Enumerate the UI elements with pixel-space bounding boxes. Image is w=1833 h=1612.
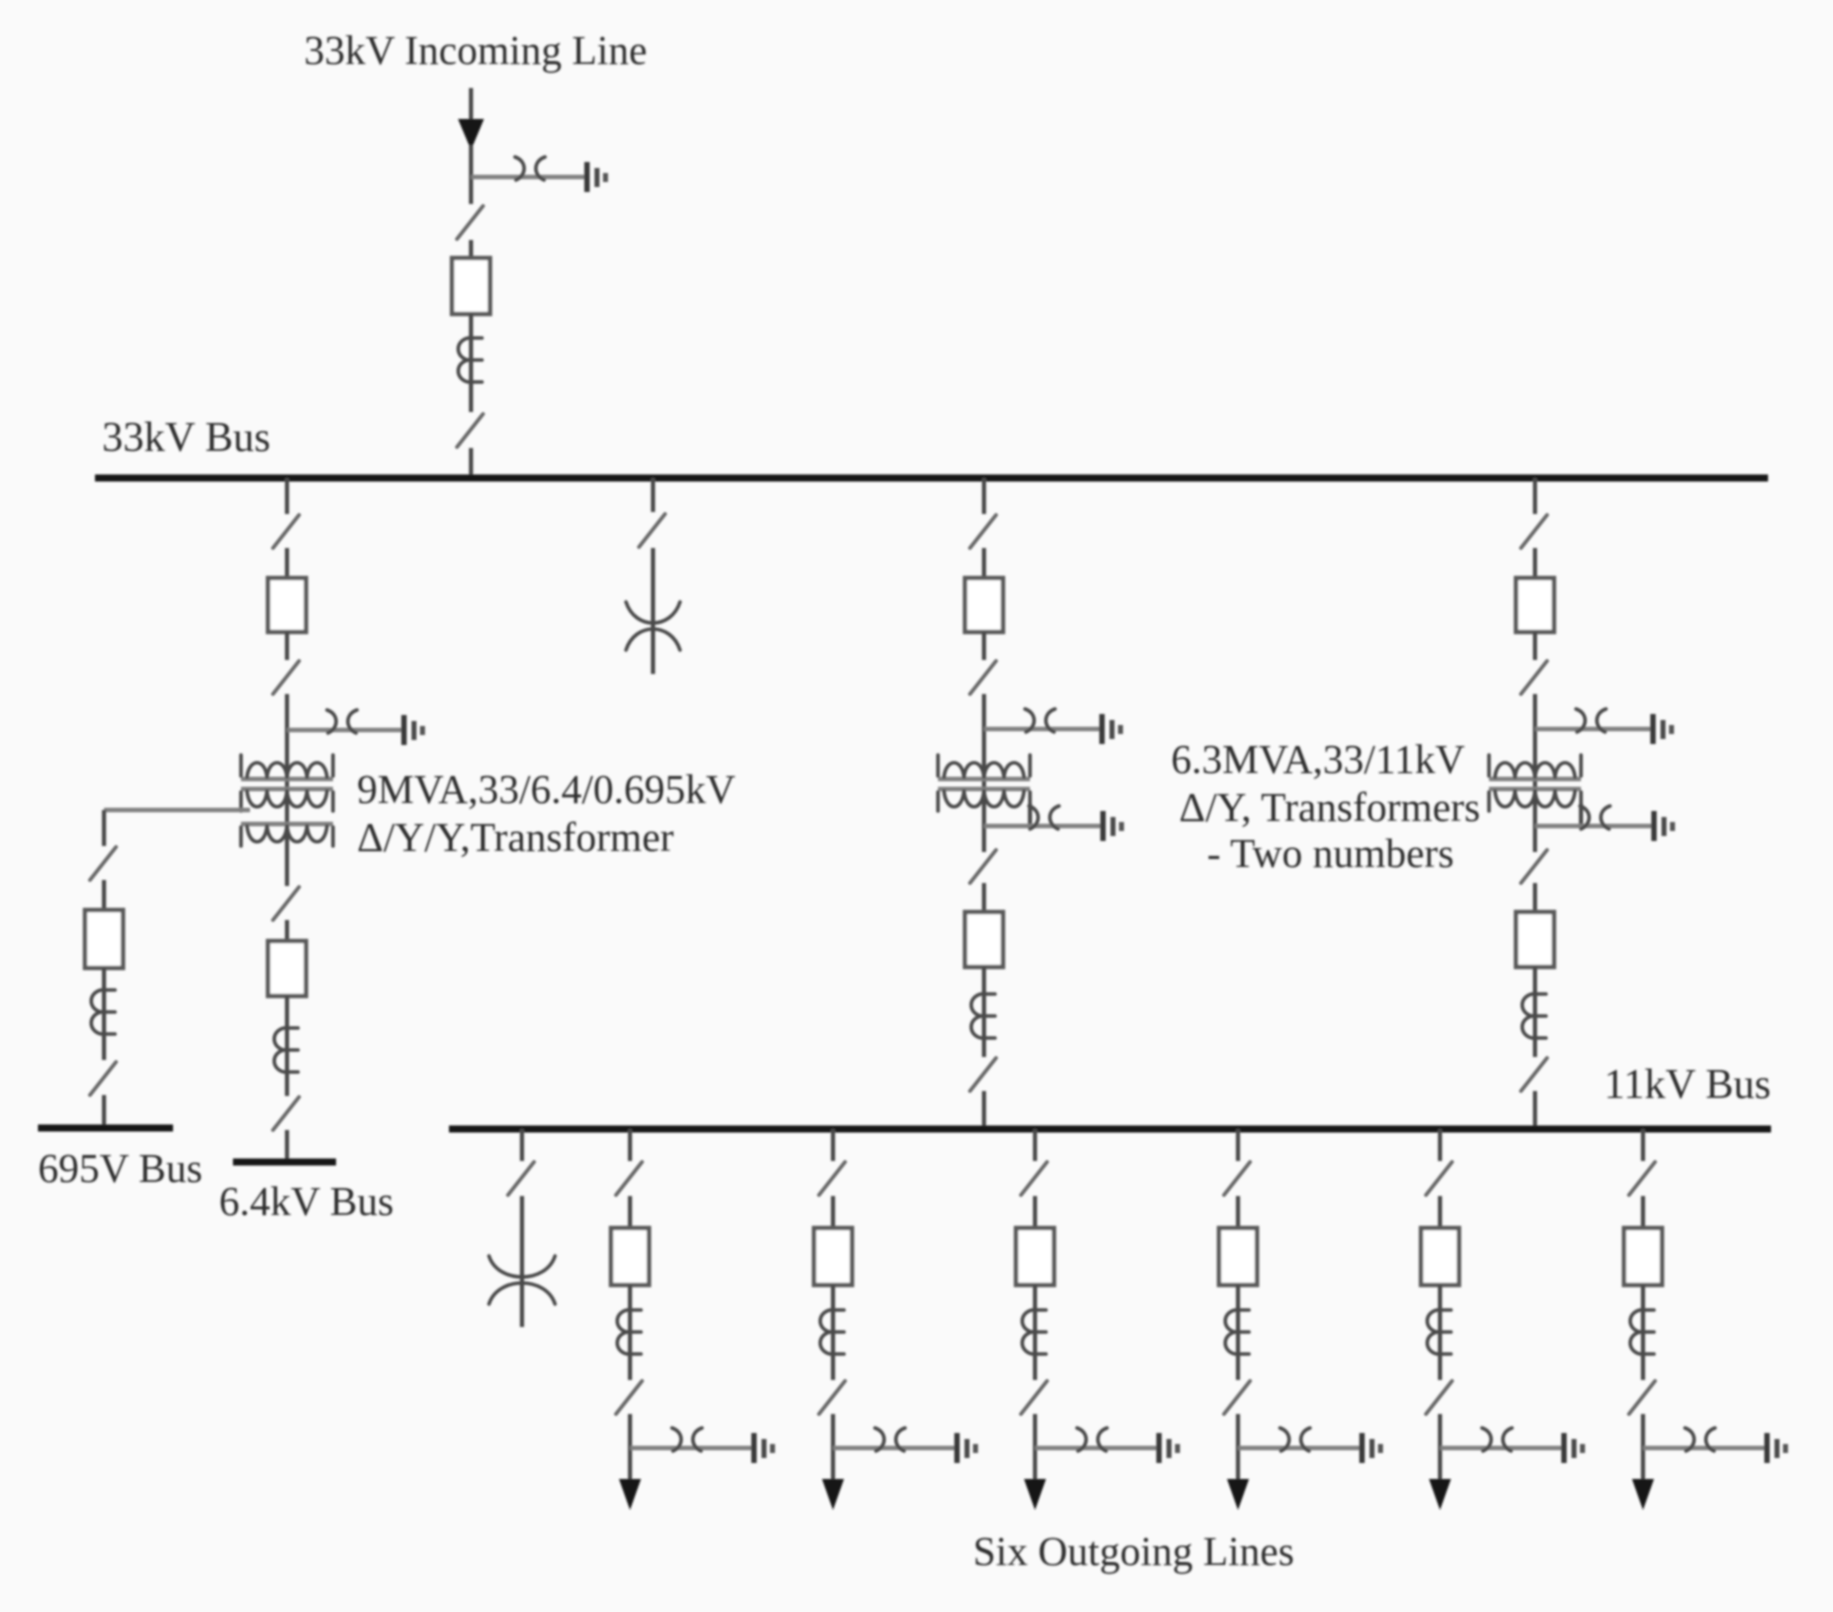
wire - incoming line between CB1 and CT1	[469, 314, 473, 412]
circuit breaker CB5 feeder3	[965, 578, 1003, 632]
wire - metering branch of feeder3 LV	[984, 824, 1103, 828]
terminal of branch of outgoing line 1	[754, 1433, 775, 1463]
11kV bus bar	[449, 1126, 1771, 1133]
wire - outgoing line 5 tap from 11kV bus	[1438, 1129, 1442, 1161]
6.4kV bus bar	[233, 1159, 336, 1166]
wire - metering branch of outgoing line 1	[630, 1446, 754, 1450]
wire - metering branch of feeder3 HV	[984, 727, 1102, 731]
isolator switch DS5 feeder1 LV	[273, 887, 299, 920]
wire - feeder1 drop to 6.4kV bus	[285, 1130, 289, 1160]
wire - metering branch of feeder4 HV	[1535, 727, 1653, 731]
isolator switch DS14 feeder4	[1521, 515, 1547, 548]
wire - metering branch of outgoing line 5	[1440, 1446, 1564, 1450]
wire - feeder3 through CT	[982, 967, 986, 1057]
terminal of branch of feeder3 HV	[1102, 714, 1123, 744]
svg-text:9MVA,33/6.4/0.695kV: 9MVA,33/6.4/0.695kV	[357, 766, 736, 812]
load arrow outgoing line 6	[1632, 1479, 1654, 1510]
circuit breaker CB3 feeder1 LV	[268, 941, 306, 996]
isolator switch DS6 feeder1 LV	[273, 1097, 299, 1130]
CT symbol )( on branch of outgoing line 5	[1482, 1428, 1512, 1451]
terminal of branch of outgoing line 6	[1767, 1433, 1788, 1463]
wire - feeder4 between isolator and LV breaker	[1533, 883, 1537, 912]
load arrow incoming line direction	[458, 119, 484, 150]
wire - feeder3 down through transformer T2	[982, 694, 986, 852]
T1 secondary winding	[241, 789, 333, 811]
isolator switch DS outgoing6	[1629, 1162, 1655, 1195]
svg-text:695V Bus: 695V Bus	[38, 1145, 202, 1191]
695V bus bar	[38, 1125, 173, 1132]
circuit breaker CB1 incoming	[452, 258, 490, 314]
current transformer CT outgoing2	[820, 1310, 844, 1354]
CT symbol )( on branch of feeder4 LV	[1580, 806, 1610, 829]
wire - metering branch of outgoing line 6	[1643, 1446, 1767, 1450]
isolator switch DS18 11kV bus PT	[508, 1162, 534, 1195]
circuit breaker CB outgoing2	[814, 1228, 852, 1285]
terminal of branch of outgoing line 4	[1362, 1433, 1383, 1463]
wire - outgoing line 1 through CT	[628, 1285, 632, 1380]
circuit breaker CB outgoing4	[1219, 1228, 1257, 1285]
T1 primary winding	[241, 755, 333, 779]
wire - outgoing line 6 drop to load arrow	[1641, 1414, 1645, 1480]
current transformer CT3 tertiary	[91, 990, 115, 1034]
svg-text:6.4kV Bus: 6.4kV Bus	[219, 1178, 394, 1224]
isolator switch DS4 feeder1	[273, 661, 299, 694]
load arrow outgoing line 4	[1227, 1479, 1249, 1510]
isolator switch DS2 outgoing5	[1426, 1381, 1452, 1414]
terminal of branch of feeder4 LV	[1654, 811, 1675, 841]
terminal of branch of feeder4 HV	[1653, 714, 1674, 744]
wire - metering branch of outgoing line 4	[1238, 1446, 1362, 1450]
current transformer CT2 feeder1	[274, 1028, 298, 1072]
wire - outgoing line 4 between isolator and breaker	[1236, 1196, 1240, 1228]
isolator switch DS11 feeder3	[970, 661, 996, 694]
current transformer CT outgoing3	[1022, 1310, 1046, 1354]
circuit breaker CB6 feeder3 LV	[965, 912, 1003, 967]
terminal of branch of incoming line	[587, 162, 608, 192]
circuit breaker CB outgoing5	[1421, 1228, 1459, 1285]
CT symbol )( on branch of outgoing line 2	[875, 1428, 905, 1451]
current transformer CT outgoing5	[1427, 1310, 1451, 1354]
circuit breaker CB4 tertiary	[85, 910, 123, 968]
isolator switch DS2 outgoing1	[616, 1381, 642, 1414]
wire - metering branch of feeder4 LV	[1535, 824, 1654, 828]
wire - incoming line between DS1 and CB1	[469, 240, 473, 258]
isolator switch DS2 incoming	[457, 414, 483, 447]
terminal of branch of outgoing line 5	[1564, 1433, 1585, 1463]
svg-text:11kV Bus: 11kV Bus	[1604, 1062, 1771, 1108]
wire - metering branch of incoming line	[471, 175, 587, 179]
wire - outgoing line 1 tap from 11kV bus	[628, 1129, 632, 1161]
CT symbol )( on branch of outgoing line 1	[672, 1428, 702, 1451]
terminal of branch of outgoing line 2	[957, 1433, 978, 1463]
svg-text:6.3MVA,33/11kV: 6.3MVA,33/11kV	[1171, 736, 1465, 782]
isolator switch DS3 feeder1	[273, 515, 299, 548]
wire - outgoing line 4 drop to load arrow	[1236, 1414, 1240, 1480]
load arrow outgoing line 1	[619, 1479, 641, 1510]
svg-text:Six Outgoing Lines: Six Outgoing Lines	[973, 1528, 1294, 1574]
circuit breaker CB7 feeder4	[1516, 578, 1554, 632]
svg-text:33kV Incoming Line: 33kV Incoming Line	[304, 27, 647, 73]
svg-text:Δ/Y, Transformers: Δ/Y, Transformers	[1179, 784, 1480, 830]
isolator switch DS13 feeder3 LV	[970, 1058, 996, 1091]
wire - outgoing line 3 drop to load arrow	[1033, 1414, 1037, 1480]
T1 tertiary winding	[241, 824, 333, 846]
isolator switch DS17 feeder4 LV	[1521, 1058, 1547, 1091]
wire - 33kV bus PT tap	[651, 478, 655, 512]
wire - incoming line upper section	[469, 145, 473, 204]
wire - outgoing line 2 tap from 11kV bus	[831, 1129, 835, 1161]
current transformer CT feeder4 LV	[1522, 994, 1546, 1038]
isolator switch DS outgoing1	[616, 1162, 642, 1195]
voltage transformer PT1 on 33kV bus	[626, 602, 680, 650]
isolator switch DS7 tertiary	[90, 847, 116, 880]
wire - outgoing line 5 between isolator and breaker	[1438, 1196, 1442, 1228]
load arrow outgoing line 3	[1024, 1479, 1046, 1510]
isolator switch DS2 outgoing6	[1629, 1381, 1655, 1414]
wire - feeder1 between DS3 and CB2	[285, 548, 289, 578]
svg-text:33kV Bus: 33kV Bus	[102, 415, 270, 461]
wire - feeder4 between breaker and isolator	[1533, 632, 1537, 660]
CT symbol )( on branch of outgoing line 3	[1077, 1428, 1107, 1451]
wire - feeder4 down through transformer T3	[1533, 694, 1537, 852]
svg-text:Δ/Y/Y,Transformer: Δ/Y/Y,Transformer	[357, 814, 674, 860]
wire - feeder4 between isolator and breaker	[1533, 548, 1537, 578]
wire - outgoing line 2 between isolator and breaker	[831, 1196, 835, 1228]
node - 33kV incoming line top	[469, 88, 473, 122]
wire - outgoing line 5 drop to load arrow	[1438, 1414, 1442, 1480]
wire - 11kV bus PT tap	[520, 1129, 524, 1161]
wire - outgoing line 6 between isolator and breaker	[1641, 1196, 1645, 1228]
isolator switch DS outgoing4	[1224, 1162, 1250, 1195]
wire - feeder4 drop to 11kV bus	[1533, 1091, 1537, 1127]
isolator switch DS outgoing5	[1426, 1162, 1452, 1195]
circuit breaker CB outgoing1	[611, 1228, 649, 1285]
wire - feeder3 drop to 11kV bus	[982, 1091, 986, 1127]
wire - feeder3 between isolator and breaker	[982, 548, 986, 578]
T3 primary winding	[1489, 755, 1581, 779]
CT symbol )( on branch of outgoing line 6	[1685, 1428, 1715, 1451]
wire - feeder3 between isolator and LV breaker	[982, 883, 986, 912]
isolator switch DS outgoing2	[819, 1162, 845, 1195]
wire - outgoing line 2 through CT	[831, 1285, 835, 1380]
wire - feeder1 down through transformer T1	[285, 694, 289, 886]
isolator switch DS1 incoming	[457, 206, 483, 239]
isolator switch DS9 bus PT	[639, 514, 665, 547]
isolator switch DS8 tertiary	[90, 1062, 116, 1095]
CT symbol )( on branch of incoming line	[515, 157, 545, 180]
circuit breaker CB2 feeder1	[268, 578, 306, 632]
wire - bus PT drop	[651, 548, 655, 674]
wire - outgoing line 6 through CT	[1641, 1285, 1645, 1380]
T2 secondary winding	[938, 789, 1030, 811]
isolator switch DS10 feeder3	[970, 515, 996, 548]
wire - feeder1 through CT2	[285, 996, 289, 1096]
wire - outgoing line 1 drop to load arrow	[628, 1414, 632, 1480]
isolator switch DS2 outgoing2	[819, 1381, 845, 1414]
current transformer CT outgoing4	[1225, 1310, 1249, 1354]
wire - tertiary branch vertical drop	[102, 810, 106, 846]
wire - feeder1 between CB2 and DS4	[285, 632, 289, 660]
circuit breaker CB outgoing3	[1016, 1228, 1054, 1285]
wire - tertiary drop to 695V bus	[102, 1095, 106, 1126]
terminal of branch of feeder3 LV	[1103, 811, 1124, 841]
voltage transformer PT2 on 11kV bus	[489, 1256, 555, 1304]
current transformer CT outgoing1	[617, 1310, 641, 1354]
CT symbol )( on branch of outgoing line 4	[1280, 1428, 1310, 1451]
wire - outgoing line 6 tap from 11kV bus	[1641, 1129, 1645, 1161]
wire - feeder3 tap from 33kV bus	[982, 478, 986, 514]
isolator switch DS12 feeder3 LV	[970, 850, 996, 883]
T2 primary winding	[938, 755, 1030, 779]
wire - outgoing line 2 drop to load arrow	[831, 1414, 835, 1480]
load arrow outgoing line 2	[822, 1479, 844, 1510]
wire - outgoing line 1 between isolator and breaker	[628, 1196, 632, 1228]
wire - metering branch of outgoing line 3	[1035, 1446, 1159, 1450]
wire - feeder3 between breaker and isolator	[982, 632, 986, 660]
CT symbol )( on branch of feeder1	[327, 710, 357, 733]
isolator switch DS15 feeder4	[1521, 661, 1547, 694]
wire - tertiary branch horizontal from T1	[104, 808, 250, 812]
wire - feeder4 through CT	[1533, 967, 1537, 1057]
isolator switch DS outgoing3	[1021, 1162, 1047, 1195]
terminal of branch of feeder1	[404, 715, 425, 745]
wire - feeder4 tap from 33kV bus	[1533, 478, 1537, 514]
wire - outgoing line 3 tap from 11kV bus	[1033, 1129, 1037, 1161]
wire - outgoing line 5 through CT	[1438, 1285, 1442, 1380]
wire - outgoing line 4 through CT	[1236, 1285, 1240, 1380]
T3 secondary winding	[1489, 789, 1581, 811]
wire - outgoing line 3 between isolator and breaker	[1033, 1196, 1037, 1228]
current transformer CT outgoing6	[1630, 1310, 1654, 1354]
wire - outgoing line 4 tap from 11kV bus	[1236, 1129, 1240, 1161]
circuit breaker CB outgoing6	[1624, 1228, 1662, 1285]
CT symbol )( on branch of feeder3 HV	[1025, 709, 1055, 732]
CT symbol )( on branch of feeder4 HV	[1576, 709, 1606, 732]
wire - T3 secondary right stub	[1579, 804, 1583, 826]
wire - incoming line drop to 33kV bus	[469, 448, 473, 478]
isolator switch DS2 outgoing3	[1021, 1381, 1047, 1414]
wire - tertiary between DS7 and CB4	[102, 880, 106, 910]
wire - 11kV bus PT drop	[520, 1196, 524, 1327]
isolator switch DS2 outgoing4	[1224, 1381, 1250, 1414]
33kV bus bar	[95, 475, 1768, 482]
current transformer CT feeder3 LV	[971, 994, 995, 1038]
CT symbol )( on branch of feeder3 LV	[1029, 806, 1059, 829]
circuit breaker CB8 feeder4 LV	[1516, 912, 1554, 967]
isolator switch DS16 feeder4 LV	[1521, 850, 1547, 883]
wire - feeder1 between DS5 and CB3	[285, 920, 289, 941]
wire - metering branch of outgoing line 2	[833, 1446, 957, 1450]
load arrow outgoing line 5	[1429, 1479, 1451, 1510]
terminal of branch of outgoing line 3	[1159, 1433, 1180, 1463]
wire - T2 secondary right stub	[1028, 804, 1032, 826]
current transformer CT1 incoming	[458, 338, 482, 382]
wire - feeder1 tap from 33kV bus	[285, 478, 289, 514]
wire - metering branch of feeder1	[287, 728, 404, 732]
wire - outgoing line 3 through CT	[1033, 1285, 1037, 1380]
wire - tertiary through CT3	[102, 968, 106, 1060]
svg-text:- Two numbers: - Two numbers	[1207, 830, 1454, 876]
